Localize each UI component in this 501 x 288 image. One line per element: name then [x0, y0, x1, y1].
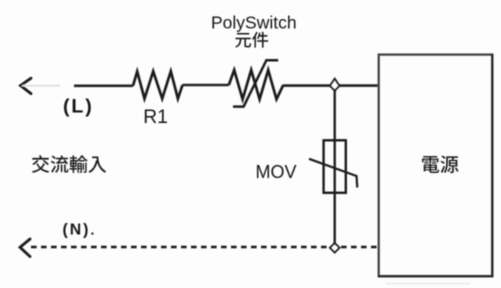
node top junction (diamond) [330, 79, 339, 91]
faint ghost line under box bottom [386, 283, 470, 285]
svg-text:(L): (L) [63, 95, 94, 117]
wire L from arrow to R1 [74, 85, 133, 88]
PolySwitch thermistor diagonal strike with feet [233, 60, 278, 106]
dot after (N) [91, 232, 93, 234]
node bottom junction (diamond) [330, 243, 339, 252]
arrowhead L line (left) [21, 78, 32, 93]
wire vertical MOV branch [334, 90, 336, 243]
svg-text:R1: R1 [143, 107, 168, 128]
power supply box [379, 55, 493, 277]
arrowhead N line (left) [20, 239, 30, 257]
wire N dashed line [31, 246, 378, 249]
wire from top node to power box [340, 84, 379, 87]
PolySwitch PTC thermistor element (zigzag) [229, 70, 283, 99]
power supply box right edge (darker) [491, 54, 493, 277]
power supply box bottom edge (darker) [378, 275, 493, 277]
label 元件 [235, 32, 268, 48]
resistor R1 [133, 71, 183, 98]
svg-text:PolySwitch: PolySwitch [211, 13, 297, 33]
wire between R1 and PolySwitch [183, 84, 229, 87]
varistor MOV diagonal with hook [309, 159, 357, 188]
label 交流輸入 [32, 155, 106, 173]
label 電源 [422, 156, 458, 174]
svg-text:MOV: MOV [256, 162, 297, 182]
varistor MOV body [324, 140, 346, 193]
wire faint tail of L arrow [22, 85, 60, 87]
svg-text:(N): (N) [63, 222, 91, 239]
wire from PolySwitch to top node [283, 84, 330, 87]
